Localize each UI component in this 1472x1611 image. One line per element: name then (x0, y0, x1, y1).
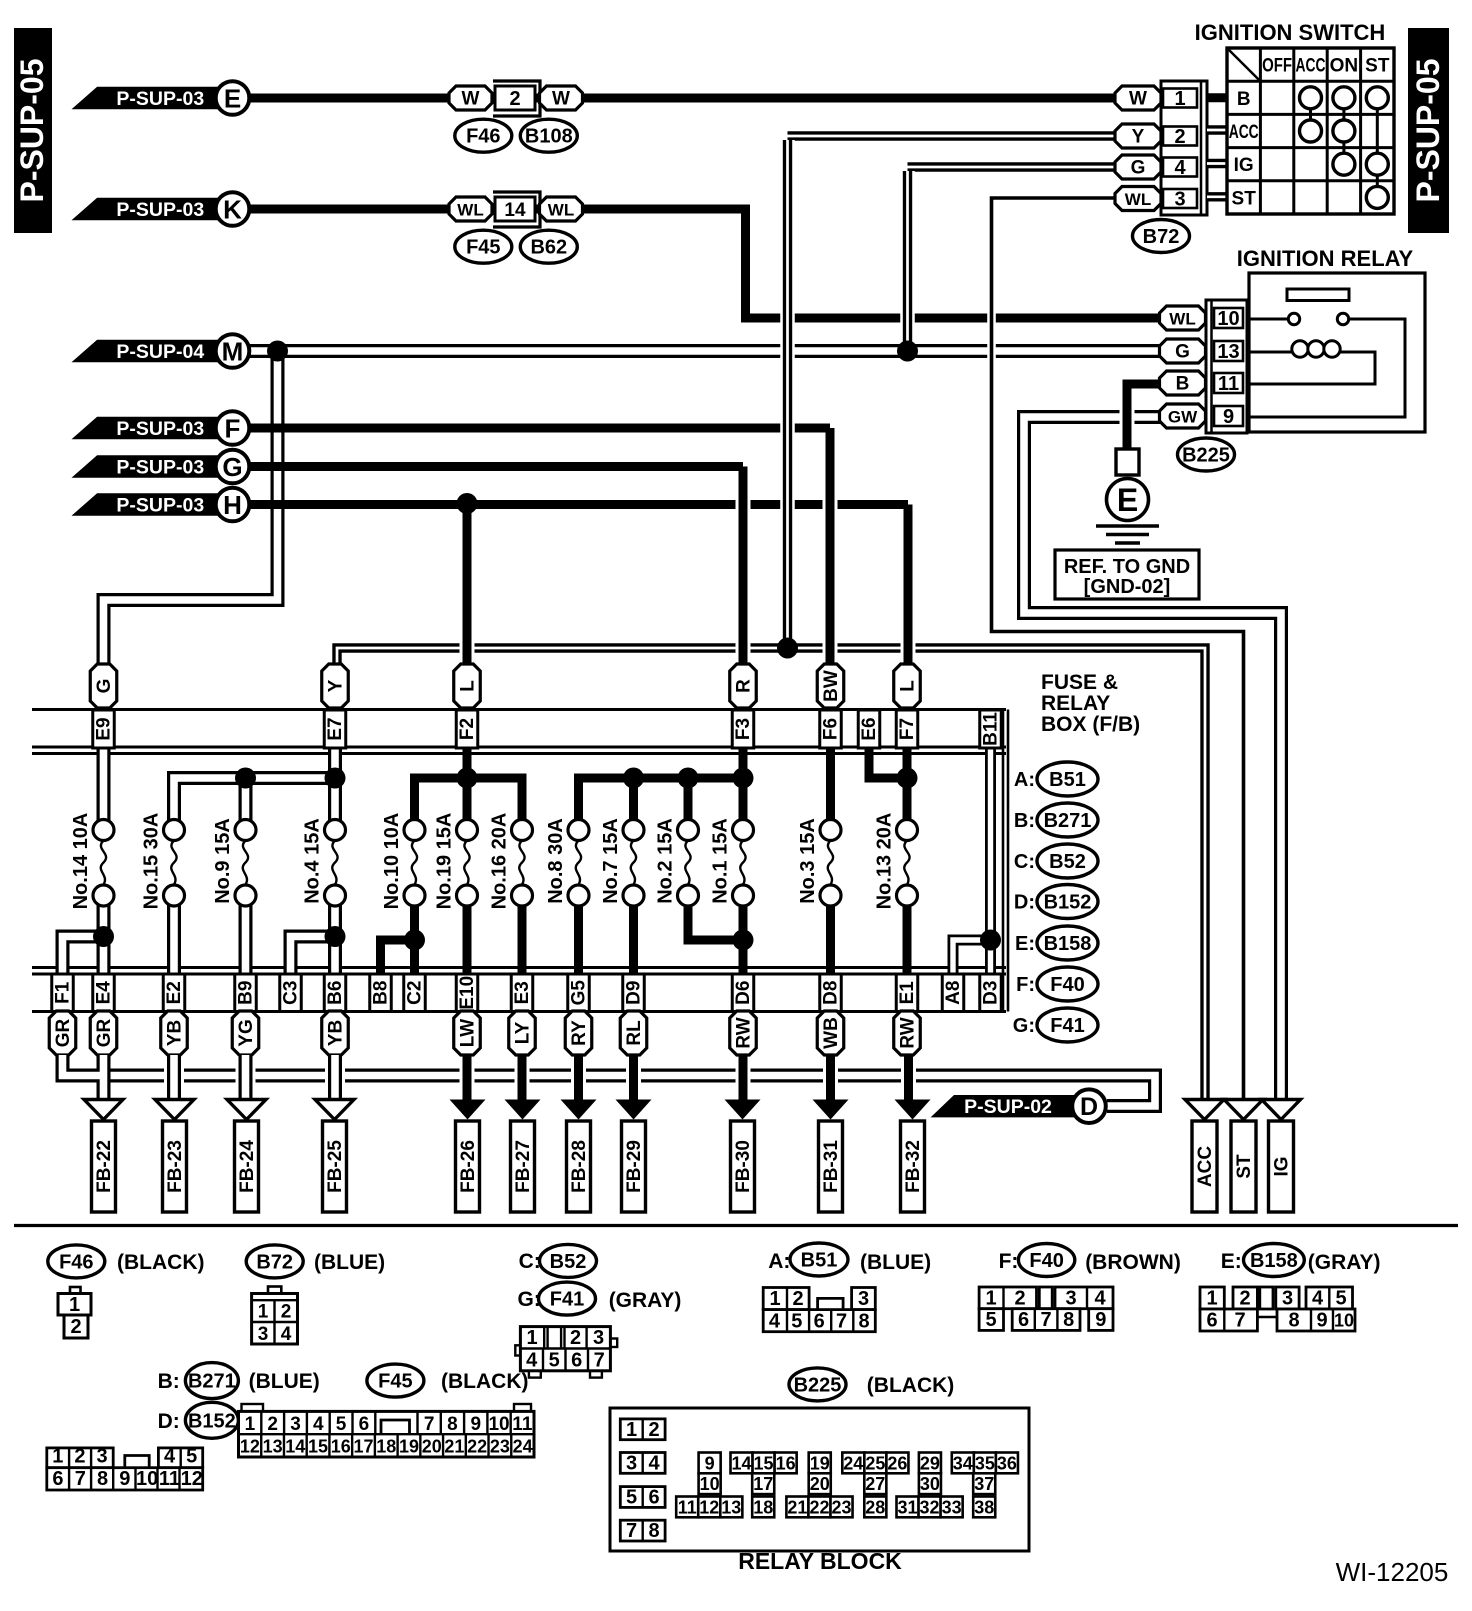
svg-text:P-SUP-05: P-SUP-05 (14, 58, 50, 202)
svg-text:YB: YB (326, 1020, 347, 1046)
svg-text:No.7 15A: No.7 15A (600, 818, 622, 904)
svg-text:FB-23: FB-23 (165, 1140, 186, 1193)
svg-text:(BROWN): (BROWN) (1085, 1251, 1181, 1274)
connector oval B225 (1178, 438, 1235, 471)
svg-text:7: 7 (75, 1468, 86, 1490)
svg-text:E:: E: (1015, 933, 1035, 955)
svg-text:3: 3 (290, 1414, 301, 1435)
svg-text:3: 3 (858, 1288, 869, 1310)
pin B11 on top bus (980, 710, 1002, 748)
fuse No.13 20A (874, 813, 918, 910)
svg-text:B: B (1176, 374, 1190, 395)
arrow to FB-27 (505, 1100, 541, 1120)
inline connector F45/B62 on wire K (449, 192, 583, 227)
svg-text:35: 35 (975, 1453, 995, 1473)
svg-text:8: 8 (858, 1311, 869, 1333)
svg-text:IG: IG (1272, 1156, 1293, 1176)
wire fuse19 to E10 (463, 904, 472, 974)
arrow to FB-28 (561, 1100, 597, 1120)
svg-text:(BLACK): (BLACK) (867, 1374, 954, 1397)
tag L above L2 (894, 664, 921, 708)
svg-text:6: 6 (359, 1414, 370, 1435)
svg-text:12: 12 (181, 1468, 203, 1490)
fuse No.2 15A (655, 818, 699, 906)
legend F46 (48, 1245, 205, 1278)
svg-text:WL: WL (548, 201, 574, 220)
svg-text:IGNITION RELAY: IGNITION RELAY (1237, 246, 1414, 271)
svg-text:28: 28 (865, 1497, 885, 1517)
svg-text:(GRAY): (GRAY) (1308, 1251, 1381, 1274)
wire GR F1 branch (63, 1055, 104, 1101)
junction dot Y (777, 638, 798, 659)
svg-text:7: 7 (1041, 1309, 1052, 1331)
svg-text:A:: A: (1014, 769, 1035, 791)
wire BW drop from F to F6 tag (823, 428, 838, 666)
wire D net (GR to P-SUP-02) (104, 1076, 1156, 1107)
svg-text:FB-31: FB-31 (821, 1140, 842, 1193)
svg-text:WL: WL (1169, 310, 1195, 329)
wire E7 to fuses 15 9 4 (174, 748, 335, 820)
svg-text:No.8 30A: No.8 30A (545, 818, 567, 904)
wire H (thick horizontal) (248, 500, 908, 509)
svg-text:(GRAY): (GRAY) (609, 1289, 682, 1312)
pin E10 on bottom bus (456, 974, 478, 1012)
svg-text:11: 11 (512, 1414, 533, 1435)
wire G stub from B72 pin 4 (908, 162, 1116, 171)
svg-text:7: 7 (1234, 1310, 1245, 1332)
svg-text:ACC: ACC (1229, 122, 1259, 143)
arrow to FB-23 (155, 1100, 194, 1120)
svg-text:FB-27: FB-27 (513, 1140, 534, 1193)
connector B72 (1161, 81, 1207, 215)
svg-text:10: 10 (136, 1468, 158, 1490)
box ACC (1192, 1121, 1217, 1212)
svg-text:9: 9 (705, 1453, 715, 1473)
svg-text:3: 3 (593, 1327, 604, 1349)
svg-text:B11: B11 (981, 712, 1002, 746)
junction dot E7 net at fuse 4 (325, 768, 346, 789)
svg-text:C:: C: (519, 1250, 541, 1273)
source arrow P-SUP-03 E (72, 81, 250, 115)
svg-text:1: 1 (626, 1419, 637, 1441)
svg-text:2: 2 (1174, 126, 1185, 148)
pin C2 on bottom bus (404, 974, 426, 1012)
svg-text:IG: IG (1234, 155, 1254, 176)
svg-text:4: 4 (769, 1311, 781, 1333)
svg-text:GR: GR (53, 1018, 74, 1047)
svg-text:33: 33 (942, 1497, 962, 1517)
svg-text:ACC: ACC (1296, 56, 1326, 77)
svg-text:2: 2 (570, 1327, 581, 1349)
wire fuse3 to D8 (826, 904, 835, 974)
svg-text:3: 3 (258, 1324, 269, 1345)
pin F1 on bottom bus (52, 974, 74, 1012)
svg-text:2: 2 (792, 1288, 803, 1310)
wire fuse9 to B9 (239, 904, 253, 974)
svg-text:2: 2 (281, 1302, 292, 1323)
wire K (WL feed, thick) (248, 209, 1161, 318)
svg-text:8: 8 (1063, 1309, 1074, 1331)
svg-text:F40: F40 (1050, 974, 1084, 996)
svg-text:C3: C3 (281, 981, 302, 1005)
svg-text:11: 11 (1218, 373, 1239, 395)
ignition switch label (1195, 20, 1386, 45)
junction dot H x L drop (457, 493, 478, 514)
junction dot fuse4 bottom (325, 926, 346, 947)
legend B: B271 (1014, 803, 1098, 837)
svg-text:6: 6 (648, 1487, 659, 1509)
connector oval B72 (1133, 220, 1190, 253)
svg-text:F40: F40 (1029, 1250, 1063, 1272)
svg-text:B:: B: (158, 1370, 180, 1393)
pin G5 on bottom bus (568, 974, 590, 1012)
svg-text:B51: B51 (1049, 769, 1086, 791)
svg-text:WL: WL (1125, 190, 1151, 209)
svg-text:12: 12 (240, 1437, 260, 1457)
svg-text:FB-26: FB-26 (458, 1140, 479, 1193)
svg-text:P-SUP-04: P-SUP-04 (116, 341, 204, 363)
tag BW above BW (817, 664, 844, 708)
svg-text:4: 4 (526, 1350, 538, 1372)
tag WB below bus #10 (817, 1011, 844, 1055)
svg-text:RW: RW (898, 1017, 919, 1048)
pin C3 on bottom bus (280, 974, 302, 1012)
svg-text:C2: C2 (405, 981, 426, 1005)
connector B158 pins (1200, 1287, 1355, 1332)
legend B225 (789, 1368, 954, 1401)
connector F45 pins (239, 1404, 535, 1457)
wire F (thick horizontal) (248, 424, 830, 433)
svg-text:21: 21 (444, 1437, 464, 1457)
junction dot F2 net (457, 768, 478, 789)
box FB-30 (731, 1121, 755, 1212)
svg-text:10: 10 (700, 1474, 720, 1494)
svg-text:23: 23 (490, 1437, 510, 1457)
legend B72 (246, 1245, 385, 1278)
wire RW E1 to FB-32 (thick) (901, 1055, 916, 1108)
svg-text:4: 4 (1174, 157, 1186, 179)
wire RW to FB arrow (thick) (736, 1055, 751, 1108)
connector oval F46 (455, 119, 512, 152)
svg-text:F:: F: (999, 1250, 1019, 1273)
svg-text:3: 3 (626, 1453, 637, 1475)
svg-text:B152: B152 (188, 1410, 236, 1432)
wire fuse16 to E3 (518, 904, 527, 974)
svg-text:29: 29 (920, 1453, 940, 1473)
relay block (610, 1408, 1029, 1551)
wire Y drop to junction (780, 140, 795, 648)
svg-text:1: 1 (69, 1294, 80, 1316)
fuse No.1 15A (710, 818, 754, 906)
wire RL to FB arrow (thick) (626, 1055, 641, 1108)
svg-text:B271: B271 (1044, 810, 1092, 832)
svg-text:ST: ST (1365, 56, 1390, 77)
svg-text:1: 1 (245, 1414, 256, 1435)
svg-text:B52: B52 (550, 1251, 587, 1273)
tag Y at B72 pin 2 (1115, 124, 1161, 148)
wire B from relay pin 11 to ground (1127, 384, 1161, 450)
svg-text:1: 1 (1174, 88, 1185, 110)
svg-text:F7: F7 (897, 718, 918, 740)
svg-text:No.1 15A: No.1 15A (710, 818, 732, 904)
svg-text:B6: B6 (325, 981, 346, 1005)
svg-text:E:: E: (1221, 1250, 1242, 1273)
svg-text:25: 25 (865, 1453, 885, 1473)
svg-text:7: 7 (594, 1350, 605, 1372)
wire fuse13 to E1 (903, 904, 912, 974)
tag Y above Y (322, 664, 349, 708)
tag YB below bus #4 (322, 1011, 349, 1055)
fuse No.19 15A (434, 813, 478, 910)
wire G (thick horizontal) (248, 462, 743, 471)
inline connector F46/B108 on wire E (449, 81, 583, 116)
svg-text:7: 7 (424, 1414, 435, 1435)
wire RY to FB arrow (thick) (571, 1055, 586, 1108)
svg-text:17: 17 (753, 1474, 773, 1494)
svg-text:20: 20 (810, 1474, 830, 1494)
svg-text:1: 1 (258, 1302, 269, 1323)
relay block label (738, 1548, 902, 1574)
svg-text:21: 21 (787, 1497, 807, 1517)
svg-text:A:: A: (768, 1250, 790, 1273)
svg-text:RELAY BLOCK: RELAY BLOCK (738, 1548, 902, 1574)
svg-text:38: 38 (974, 1497, 994, 1517)
wire M (G net, thin double-line) (104, 351, 1162, 666)
svg-text:FB-29: FB-29 (624, 1140, 645, 1193)
fuse No.7 15A (600, 818, 644, 906)
svg-text:8: 8 (97, 1468, 108, 1490)
svg-text:1: 1 (769, 1288, 780, 1310)
svg-text:W: W (1129, 89, 1147, 110)
svg-text:B62: B62 (530, 237, 567, 259)
svg-text:G: G (94, 679, 115, 694)
svg-text:B271: B271 (188, 1371, 236, 1393)
svg-text:F6: F6 (821, 718, 842, 740)
fuse No.15 30A (141, 813, 185, 910)
svg-text:No.9 15A: No.9 15A (212, 818, 234, 904)
arrow to IG (1262, 1100, 1301, 1120)
tag LY below bus #6 (509, 1011, 536, 1055)
svg-text:F45: F45 (466, 237, 500, 259)
svg-text:No.13 20A: No.13 20A (874, 813, 896, 910)
tag LW below bus #5 (454, 1011, 481, 1055)
pin D3 on bottom bus (980, 974, 1002, 1012)
wire YB2 to FB arrow (325, 1055, 345, 1101)
svg-text:20: 20 (422, 1437, 442, 1457)
legend G: F41 (1013, 1008, 1098, 1042)
svg-text:9: 9 (1223, 406, 1234, 428)
svg-text:2: 2 (509, 88, 520, 110)
svg-text:R: R (734, 679, 755, 693)
svg-text:LY: LY (513, 1021, 534, 1044)
box FB-27 (511, 1121, 535, 1212)
svg-text:FB-30: FB-30 (733, 1140, 754, 1193)
arrow to FB-29 (616, 1100, 652, 1120)
svg-text:F45: F45 (378, 1371, 412, 1393)
box FB-29 (622, 1121, 646, 1212)
svg-text:B158: B158 (1044, 933, 1092, 955)
svg-text:IGNITION SWITCH: IGNITION SWITCH (1195, 20, 1386, 45)
svg-text:4: 4 (281, 1324, 292, 1345)
fuse No.16 20A (489, 813, 533, 910)
svg-text:2: 2 (70, 1316, 81, 1338)
svg-text:E10: E10 (457, 976, 478, 1010)
svg-text:5: 5 (336, 1414, 347, 1435)
legend E: B158 (1015, 926, 1098, 960)
tag L above L (454, 664, 481, 708)
svg-text:16: 16 (331, 1437, 351, 1457)
box FB-32 (901, 1121, 925, 1212)
source arrow P-SUP-03 F (72, 411, 250, 445)
svg-text:G: G (222, 452, 242, 482)
pin B6 on bottom bus (324, 974, 346, 1012)
wire F2 to fuses 10 19 16 (415, 748, 523, 820)
svg-text:B72: B72 (256, 1251, 293, 1273)
tag GR below bus #0 (49, 1011, 76, 1055)
svg-text:11: 11 (159, 1468, 180, 1490)
svg-text:17: 17 (353, 1437, 373, 1457)
ground connector square (1116, 449, 1139, 475)
svg-text:F46: F46 (466, 126, 500, 148)
svg-text:P-SUP-03: P-SUP-03 (116, 495, 204, 517)
svg-text:6: 6 (571, 1350, 582, 1372)
banner P-SUP-05 right (1408, 28, 1449, 233)
tag RW below bus #9 (730, 1011, 757, 1055)
svg-text:10: 10 (488, 1414, 509, 1435)
svg-text:5: 5 (1335, 1288, 1346, 1310)
pin F7 on top bus (896, 710, 918, 748)
svg-text:L: L (898, 680, 919, 692)
svg-text:WB: WB (821, 1017, 842, 1049)
pin D6 on bottom bus (732, 974, 754, 1012)
wire B11 to D3 and A8 (953, 748, 991, 974)
svg-text:30: 30 (920, 1474, 940, 1494)
svg-text:FB-32: FB-32 (903, 1140, 924, 1193)
source arrow P-SUP-04 M (72, 334, 250, 368)
svg-text:B8: B8 (371, 981, 392, 1005)
pin F6 on top bus (820, 710, 842, 748)
legend F45 (367, 1364, 529, 1397)
svg-text:P-SUP-05: P-SUP-05 (1410, 58, 1446, 202)
svg-text:5: 5 (791, 1311, 802, 1333)
junction dot fuse1 bottom (733, 930, 754, 951)
svg-text:16: 16 (776, 1453, 796, 1473)
svg-text:E3: E3 (512, 981, 533, 1004)
svg-text:23: 23 (832, 1497, 852, 1517)
svg-text:D8: D8 (821, 981, 842, 1005)
junction dot E7 net at fuse 9 (235, 768, 256, 789)
svg-text:G: G (1175, 342, 1190, 363)
svg-text:No.16 20A: No.16 20A (489, 813, 511, 910)
svg-text:C:: C: (1014, 851, 1035, 873)
svg-text:6: 6 (52, 1468, 63, 1490)
svg-text:E: E (1117, 482, 1138, 518)
fuse box bus bars (32, 710, 1008, 1012)
svg-text:7: 7 (836, 1311, 847, 1333)
wire Y stub from B72 pin 2 (788, 131, 1116, 140)
svg-text:WI-12205: WI-12205 (1336, 1557, 1449, 1587)
svg-text:E: E (224, 84, 241, 114)
svg-text:37: 37 (974, 1474, 994, 1494)
pin B9 on bottom bus (235, 974, 257, 1012)
svg-text:13: 13 (263, 1437, 283, 1457)
svg-text:2: 2 (267, 1414, 278, 1435)
box FB-31 (819, 1121, 843, 1212)
svg-text:5: 5 (626, 1487, 637, 1509)
svg-text:10: 10 (1334, 1311, 1354, 1331)
legend B: B271 (158, 1363, 320, 1399)
svg-text:9: 9 (1095, 1309, 1106, 1331)
tag B at relay pin 11 (1160, 371, 1206, 395)
svg-text:(BLUE): (BLUE) (860, 1251, 931, 1274)
wire LY to FB arrow (thick) (515, 1055, 530, 1108)
wire YB to FB arrow (164, 1055, 184, 1101)
svg-text:26: 26 (887, 1453, 907, 1473)
tag RY below bus #7 (565, 1011, 592, 1055)
arrow to FB-22 (84, 1100, 123, 1120)
svg-text:REF. TO GND: REF. TO GND (1064, 556, 1190, 578)
svg-text:FUSE &: FUSE & (1041, 671, 1118, 694)
svg-text:P-SUP-03: P-SUP-03 (116, 457, 204, 479)
svg-text:No.10 10A: No.10 10A (381, 813, 403, 910)
connector B225 pins (1206, 300, 1247, 433)
wire fuse10 to C2 and B8 (381, 904, 415, 974)
svg-text:RELAY: RELAY (1041, 692, 1110, 715)
svg-text:D:: D: (158, 1410, 180, 1433)
svg-text:36: 36 (997, 1453, 1017, 1473)
svg-text:F:: F: (1016, 974, 1035, 996)
box IG (1269, 1121, 1294, 1212)
svg-text:8: 8 (1288, 1310, 1299, 1332)
pin A8 on bottom bus (942, 974, 964, 1012)
svg-text:4: 4 (648, 1453, 660, 1475)
svg-text:B225: B225 (794, 1374, 842, 1396)
svg-text:15: 15 (308, 1437, 328, 1457)
junction dot F3 net at fuse 7 (623, 768, 644, 789)
svg-text:WL: WL (457, 201, 483, 220)
wire fuse4 to B6 and C3 (291, 905, 336, 974)
svg-text:11: 11 (678, 1497, 697, 1517)
svg-text:D9: D9 (624, 981, 645, 1005)
svg-text:A8: A8 (943, 981, 964, 1005)
destination arrow P-SUP-02 D (931, 1089, 1106, 1123)
svg-text:H: H (223, 490, 242, 520)
legend A: B51 (1014, 762, 1098, 796)
tag RW below bus #11 (894, 1011, 921, 1055)
wire YG to FB arrow (236, 1055, 256, 1101)
svg-text:6: 6 (1018, 1309, 1029, 1331)
svg-text:F46: F46 (59, 1251, 93, 1273)
fuse No.9 15A (212, 818, 256, 906)
svg-text:7: 7 (626, 1520, 637, 1542)
pin F2 on top bus (456, 710, 478, 748)
svg-text:E7: E7 (325, 717, 346, 740)
svg-text:14: 14 (285, 1437, 305, 1457)
svg-text:2: 2 (1014, 1288, 1025, 1310)
svg-text:F41: F41 (550, 1289, 584, 1311)
svg-text:6: 6 (814, 1311, 825, 1333)
ignition switch table (1207, 48, 1394, 214)
connector F41 pins (515, 1327, 617, 1378)
svg-text:No.14 10A: No.14 10A (70, 813, 92, 910)
svg-text:(BLACK): (BLACK) (441, 1370, 528, 1393)
svg-text:8: 8 (648, 1520, 659, 1542)
svg-text:10: 10 (1217, 308, 1239, 330)
svg-text:32: 32 (920, 1497, 940, 1517)
arrow to FB-26 (450, 1100, 486, 1120)
legend C: B52 (1014, 844, 1098, 878)
pin E2 on bottom bus (163, 974, 185, 1012)
